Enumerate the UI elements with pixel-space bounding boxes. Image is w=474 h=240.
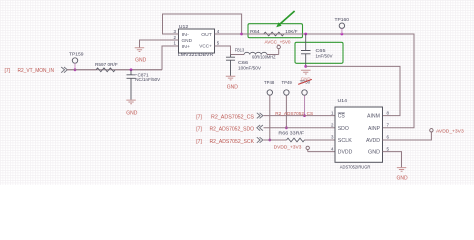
ground C65 xyxy=(301,70,311,74)
svg-text:DVDD: DVDD xyxy=(338,150,353,156)
svg-text:TP160: TP160 xyxy=(335,17,350,23)
wire SCK net + resistor R66 xyxy=(264,139,336,141)
svg-text:GND: GND xyxy=(397,176,409,182)
junction C65 bottom / AINM tap xyxy=(304,65,307,68)
wire output net to ADC xyxy=(242,34,414,128)
svg-text:R64: R64 xyxy=(250,29,260,34)
svg-text:GND: GND xyxy=(135,58,147,64)
ground below C871 xyxy=(126,100,136,104)
svg-text:IN-: IN- xyxy=(182,32,190,38)
svg-text:LMV321IDBVR: LMV321IDBVR xyxy=(178,52,214,57)
svg-text:OUT: OUT xyxy=(201,32,212,38)
svg-text:R2_VT_MON_IN: R2_VT_MON_IN xyxy=(18,68,55,74)
svg-text:AINM: AINM xyxy=(367,114,380,120)
svg-text:[7]: [7] xyxy=(196,139,202,145)
wire AINM kelvin xyxy=(306,66,400,115)
svg-text:SDO: SDO xyxy=(338,126,349,132)
svg-text:R2_ADS7052_CS: R2_ADS7052_CS xyxy=(275,111,313,117)
svg-text:R66 33R/F: R66 33R/F xyxy=(278,131,304,136)
wire U12 gnd pin2 xyxy=(140,40,179,48)
green highlight box R64 xyxy=(248,24,303,38)
svg-text:R2_ADS7052_SDO: R2_ADS7052_SDO xyxy=(210,127,255,133)
ground U12 xyxy=(135,48,145,52)
wire feedback OUT to IN- xyxy=(163,14,242,34)
svg-text:NC/1nF/50V: NC/1nF/50V xyxy=(135,77,161,82)
svg-text:AVDD_+3V3: AVDD_+3V3 xyxy=(436,129,464,135)
ADC U14 xyxy=(335,107,383,162)
svg-text:IN+: IN+ xyxy=(182,44,191,50)
svg-text:GND: GND xyxy=(182,38,193,44)
capacitor C65 xyxy=(301,34,311,66)
svg-text:U14: U14 xyxy=(338,98,348,104)
junction feedback/out xyxy=(240,33,243,36)
svg-text:TP49: TP49 xyxy=(282,80,293,85)
op-amp U12 xyxy=(179,29,215,53)
svg-text:[7]: [7] xyxy=(196,127,202,133)
power port AVDD_+3V3 xyxy=(430,129,433,132)
svg-text:1nF/50V: 1nF/50V xyxy=(316,54,334,59)
svg-text:CS: CS xyxy=(338,114,346,120)
svg-text:AVCC_+5V0: AVCC_+5V0 xyxy=(265,40,291,46)
junction TP159 xyxy=(74,68,77,71)
wire AVDD pin6 xyxy=(383,132,432,140)
svg-text:R2_ADS7052_CS: R2_ADS7052_CS xyxy=(211,115,255,121)
svg-text:10K/F: 10K/F xyxy=(285,29,297,34)
resistor R597 xyxy=(96,68,115,72)
svg-text:GND: GND xyxy=(227,85,239,91)
svg-text:TP159: TP159 xyxy=(69,52,84,58)
svg-text:60R/100MHZ: 60R/100MHZ xyxy=(252,54,276,59)
svg-text:ADS7052IRUGR: ADS7052IRUGR xyxy=(340,164,371,169)
svg-text:FB13: FB13 xyxy=(235,47,245,52)
ground C66 xyxy=(226,76,236,80)
svg-text:AVDD: AVDD xyxy=(366,138,380,144)
svg-text:VCC+: VCC+ xyxy=(199,44,212,50)
svg-text:TP48: TP48 xyxy=(264,80,275,85)
svg-text:R2_ADS7052_SCK: R2_ADS7052_SCK xyxy=(210,139,255,145)
ground U14 xyxy=(397,168,407,172)
port R2_VT_MON_IN chevron xyxy=(61,67,67,73)
wire input net xyxy=(67,46,179,70)
svg-text:100nF/50V: 100nF/50V xyxy=(238,66,262,71)
svg-text:DVDD_+3V3: DVDD_+3V3 xyxy=(274,145,302,151)
junction C65 top xyxy=(304,33,307,36)
junction C871 tap xyxy=(130,68,133,71)
svg-text:[7]: [7] xyxy=(196,115,202,121)
svg-text:U12: U12 xyxy=(179,24,189,30)
svg-text:R597 0R/F: R597 0R/F xyxy=(95,62,118,67)
green highlight box C65 xyxy=(295,42,343,63)
svg-text:SCLK: SCLK xyxy=(338,138,353,144)
svg-text:[7]: [7] xyxy=(5,68,11,74)
green annotation arrow xyxy=(280,11,295,24)
svg-text:GND: GND xyxy=(126,111,138,117)
svg-text:C66: C66 xyxy=(238,60,249,65)
capacitor C66 xyxy=(226,55,235,76)
wire GND pin5 xyxy=(383,152,402,168)
wire CS net xyxy=(264,115,336,117)
svg-text:C65: C65 xyxy=(316,48,327,53)
svg-text:GND: GND xyxy=(368,150,380,156)
svg-text:AINP: AINP xyxy=(368,126,381,132)
wire VCC+ branch xyxy=(215,46,279,55)
junction TP160 xyxy=(341,33,344,36)
wire SDO net xyxy=(264,127,336,129)
capacitor C871 xyxy=(127,70,136,100)
